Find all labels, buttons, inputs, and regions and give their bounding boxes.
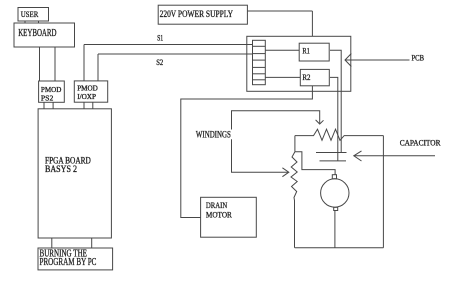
- svg-text:I/OXP: I/OXP: [77, 92, 96, 101]
- svg-text:WINDINGS: WINDINGS: [196, 129, 231, 139]
- motor M1 top terminal: [332, 175, 336, 179]
- motor circuit box bottom edge: [295, 247, 384, 249]
- block PMOD I/OXP: [74, 81, 107, 102]
- wire S2 horizontal: [98, 53, 253, 55]
- svg-text:USER: USER: [21, 9, 39, 19]
- wire R1 to capacitor top plate: [330, 50, 341, 152]
- svg-text:PCB: PCB: [412, 52, 425, 62]
- wire PS2-FPGA right: [52, 102, 54, 109]
- connector J1: [253, 40, 266, 84]
- wire IOXP-FPGA left: [83, 102, 85, 109]
- wire FPGA-BURNING right: [91, 238, 93, 248]
- wire WINDINGS callout to left resistor: [232, 139, 289, 172]
- wire S1 horizontal: [84, 44, 253, 46]
- motor circuit box top edge with resistor: [295, 129, 384, 140]
- block 220V POWER SUPPLY: [158, 5, 247, 24]
- wire connector to R1: [265, 49, 299, 51]
- block FPGA BOARD BASYS 2: [38, 109, 111, 238]
- svg-text:BASYS 2: BASYS 2: [45, 164, 77, 174]
- svg-text:S2: S2: [156, 58, 163, 67]
- svg-text:220V POWER SUPPLY: 220V POWER SUPPLY: [160, 9, 233, 20]
- svg-text:PMOD: PMOD: [41, 85, 62, 94]
- wire motor bottom to box bottom: [334, 211, 336, 248]
- connector J1 pin rungs: [253, 45, 266, 47]
- svg-text:PS2: PS2: [41, 94, 54, 103]
- motor circuit box right edge: [382, 136, 384, 248]
- svg-text:KEYBOARD: KEYBOARD: [18, 28, 56, 39]
- motor circuit box left edge top: [294, 136, 296, 152]
- svg-text:R1: R1: [302, 46, 310, 55]
- arrow PCB callout: [345, 59, 410, 61]
- wire R2 to capacitor bottom plate: [330, 77, 338, 160]
- svg-text:CAPACITOR: CAPACITOR: [400, 138, 441, 147]
- resistor left winding (vertical zigzag): [291, 152, 297, 248]
- capacitor C1 bottom plate: [320, 160, 347, 162]
- wire S1 vertical: [83, 45, 85, 81]
- relay R2 box: [300, 69, 329, 85]
- block PMOD PS2: [39, 81, 65, 102]
- motor M1 body: [321, 179, 349, 207]
- wire FPGA-BURNING left: [51, 238, 53, 248]
- capacitor C1 top plate: [316, 152, 347, 154]
- wire KEYBOARD-PMODPS2 right: [54, 47, 56, 81]
- wire WINDINGS callout to top resistor: [232, 111, 320, 130]
- arrow head to left resistor: [282, 168, 288, 177]
- motor M1 bottom terminal: [334, 207, 338, 210]
- relay R1 box: [299, 43, 329, 61]
- svg-text:PROGRAM BY PC: PROGRAM BY PC: [40, 257, 97, 268]
- block KEYBOARD: [14, 23, 75, 47]
- wire USER-KEYBOARD left: [24, 21, 26, 23]
- block DRAIN MOTOR: [201, 197, 257, 237]
- block BURNING THE PROGRAM BY PC: [38, 248, 113, 270]
- block USER: [18, 8, 49, 22]
- arrow head to top resistor: [316, 120, 324, 124]
- arrow CAPACITOR callout: [354, 155, 435, 157]
- wire USER-KEYBOARD right: [38, 21, 40, 23]
- svg-text:MOTOR: MOTOR: [206, 210, 232, 220]
- wire S2 vertical: [97, 54, 99, 81]
- wire R2 to drain motor: [181, 86, 313, 218]
- wire 220V to PCB vertical: [311, 11, 313, 36]
- svg-text:S1: S1: [157, 33, 163, 42]
- wire connector to R2: [265, 76, 300, 78]
- svg-text:R2: R2: [302, 73, 310, 82]
- wire PS2-FPGA left: [43, 102, 45, 109]
- wire left edge jog to motor top: [295, 152, 335, 175]
- wire KEYBOARD-PMODPS2 left: [39, 47, 41, 81]
- block PCB outline: [247, 36, 351, 91]
- wire IOXP-FPGA right: [92, 102, 94, 109]
- wire 220V to PCB horizontal: [247, 10, 312, 12]
